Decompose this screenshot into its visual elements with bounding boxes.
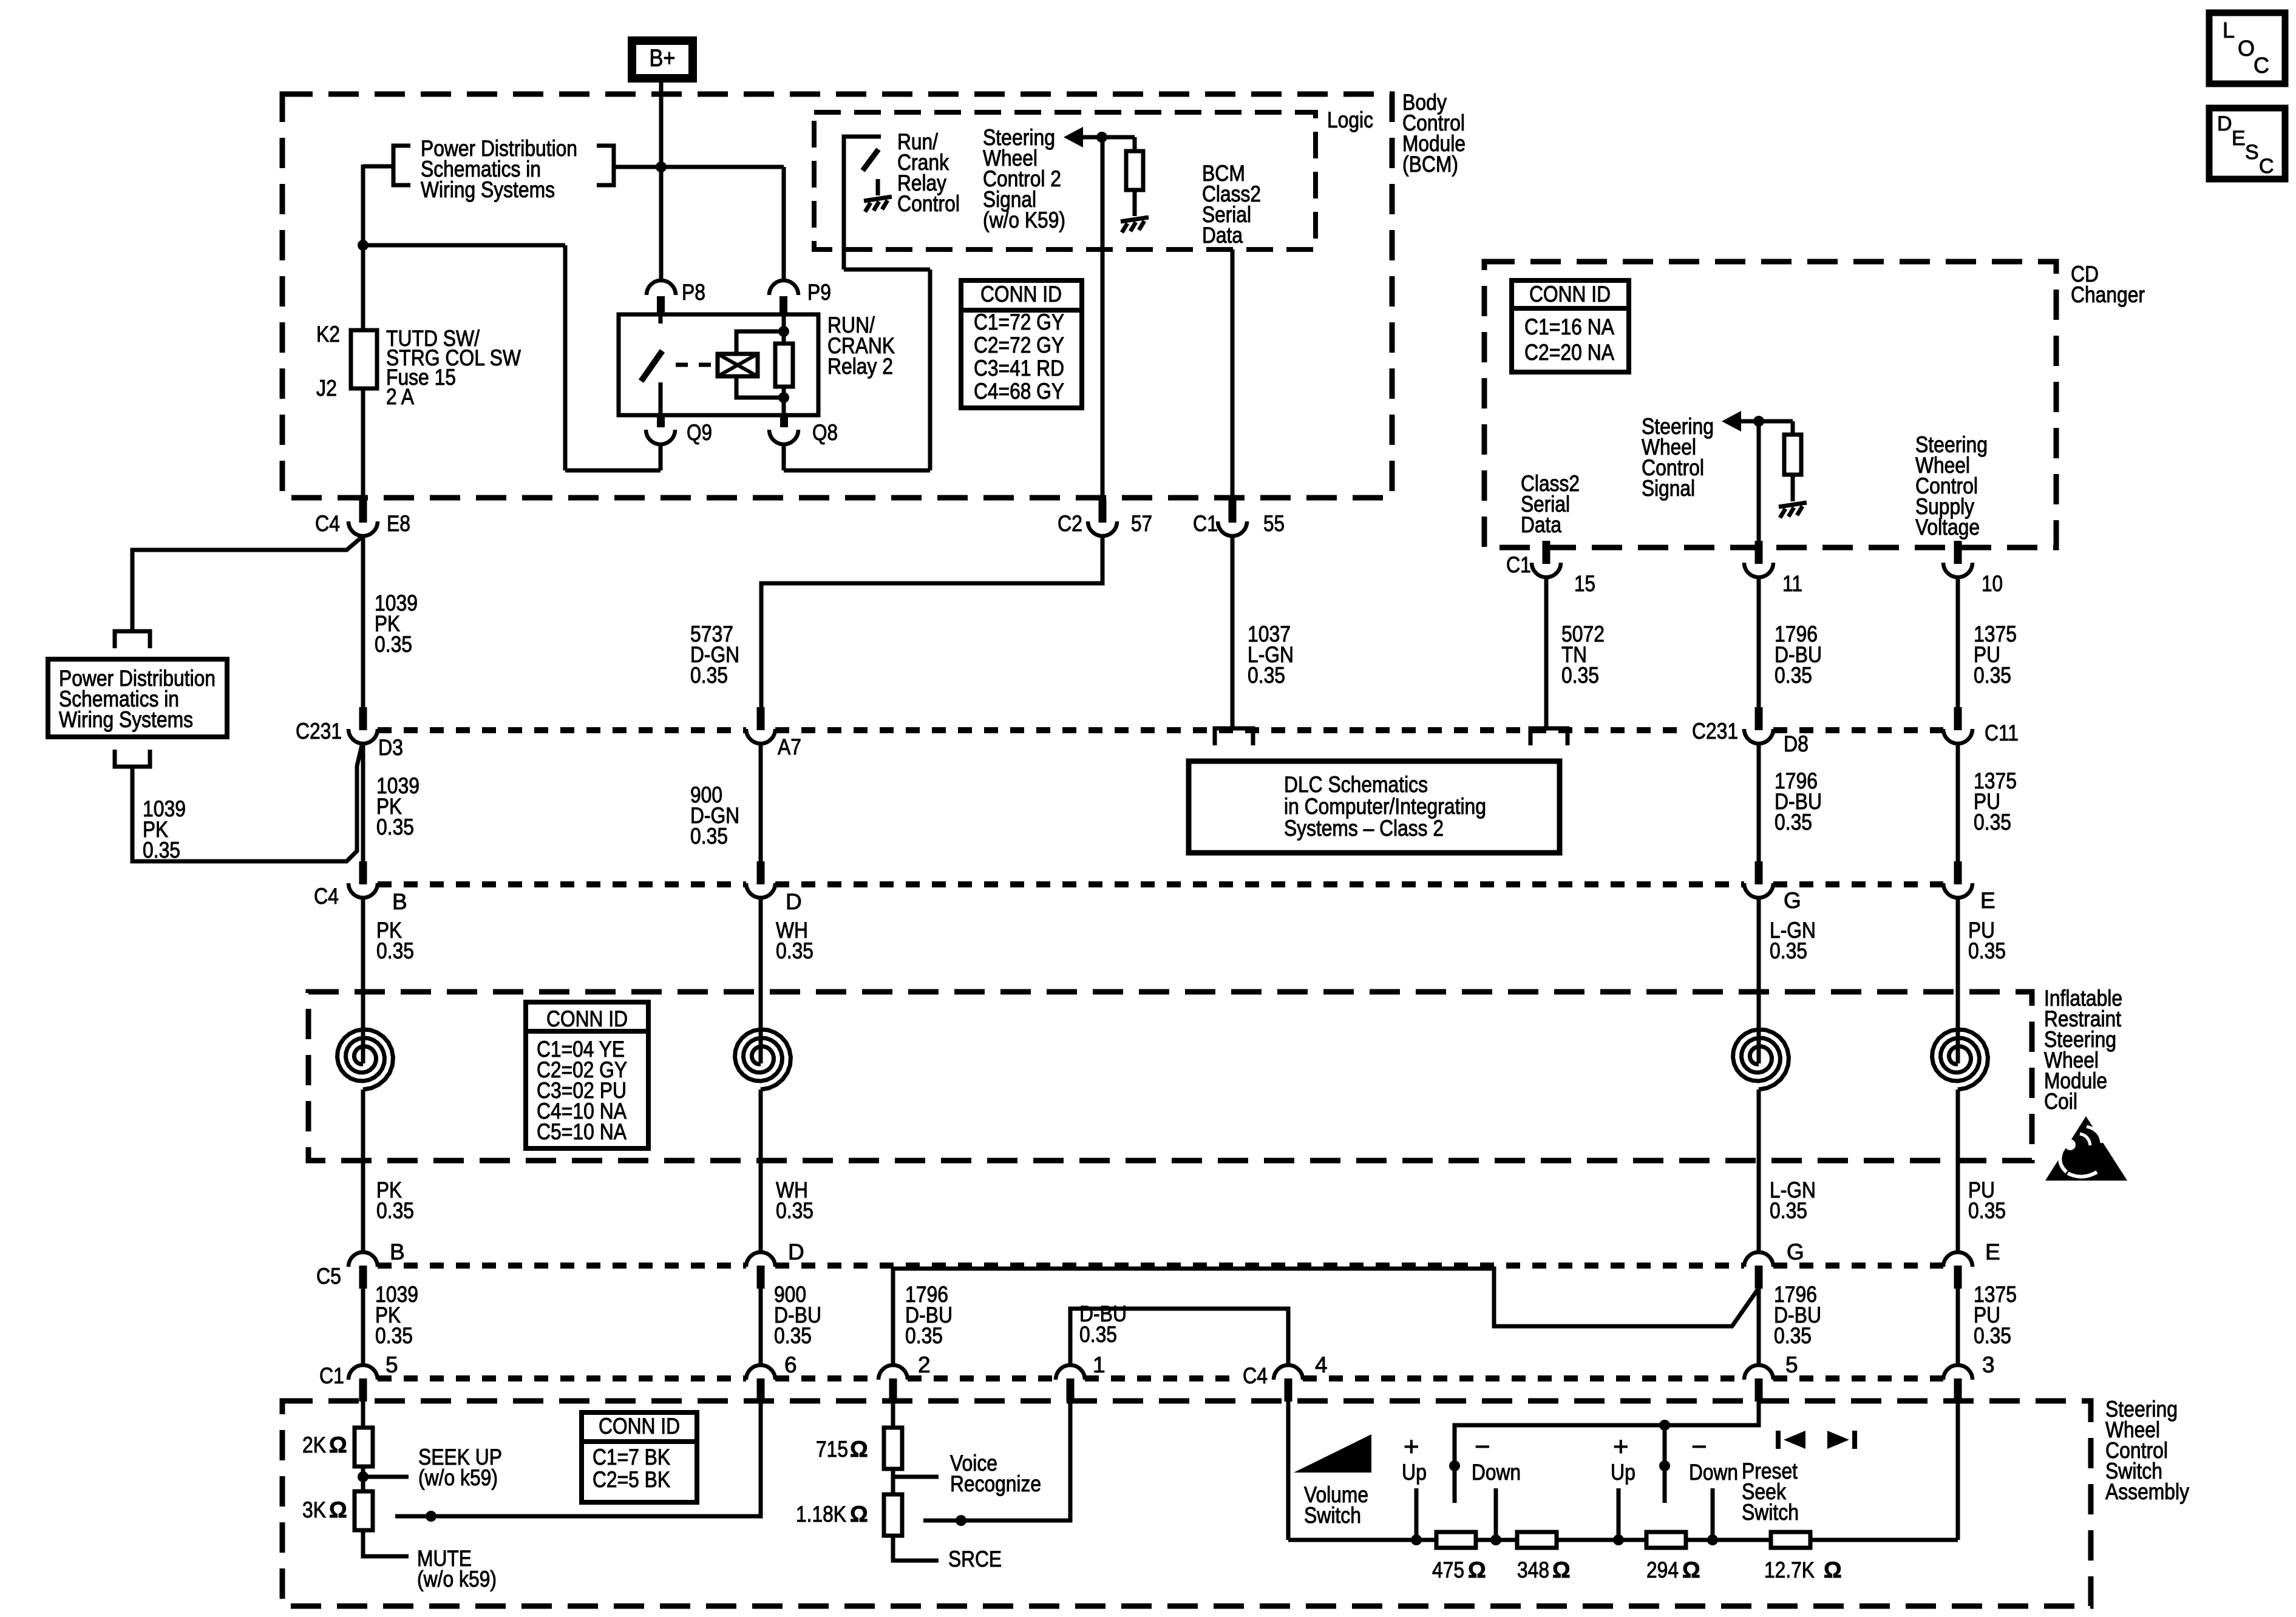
svg-text:Systems – Class 2: Systems – Class 2 (1284, 816, 1444, 841)
svg-text:C1: C1 (1506, 552, 1531, 577)
svg-text:348: 348 (1517, 1558, 1549, 1582)
svg-text:B: B (392, 889, 407, 914)
connector P8 (647, 280, 676, 295)
Power Distribution Schematics box (48, 659, 227, 737)
svg-text:0.35: 0.35 (905, 1323, 943, 1348)
svg-text:Ω: Ω (1824, 1558, 1842, 1582)
svg-text:Signal: Signal (1642, 476, 1695, 501)
svg-text:(w/o k59): (w/o k59) (417, 1567, 497, 1592)
relay actuator dashed link (676, 363, 716, 367)
resistor 12.7K (1771, 1532, 1810, 1548)
bracket DLC left (1215, 728, 1253, 745)
connector C4 E (1954, 861, 1962, 884)
svg-text:Voltage: Voltage (1915, 515, 1980, 540)
connector band C1/C4 bottom row (378, 1375, 746, 1381)
wire left rail top (363, 164, 393, 169)
ground CD signal (1779, 503, 1807, 518)
svg-text:E: E (1980, 888, 1995, 913)
svg-text:C1=72 GY: C1=72 GY (974, 310, 1064, 334)
svg-text:D8: D8 (1784, 731, 1809, 756)
svg-text:CONN ID: CONN ID (599, 1414, 680, 1439)
svg-text:C4: C4 (315, 511, 340, 536)
svg-text:715: 715 (816, 1437, 848, 1462)
svg-text:D3: D3 (378, 735, 403, 760)
svg-text:1: 1 (1093, 1352, 1106, 1377)
svg-text:0.35: 0.35 (1775, 810, 1812, 835)
svg-text:C3=41 RD: C3=41 RD (974, 356, 1064, 381)
junction node B+ feed (656, 161, 667, 172)
wire C5 B to pin 5 (361, 1289, 365, 1364)
svg-text:0.35: 0.35 (690, 824, 728, 849)
svg-text:+: + (1613, 1432, 1629, 1462)
connector Q8 (780, 415, 788, 427)
CONN ID table CD changer (1512, 280, 1629, 372)
svg-text:0.35: 0.35 (376, 1198, 414, 1223)
svg-text:57: 57 (1131, 511, 1152, 536)
connector C4 E8 (359, 500, 367, 523)
wire B+ to P8 (659, 83, 664, 280)
svg-text:0.35: 0.35 (143, 838, 180, 863)
connector C5 B (359, 1266, 367, 1289)
connector C1 pin 5 (359, 1378, 367, 1402)
wire power distribution feed (614, 165, 784, 169)
coil left rail (338, 1029, 393, 1090)
svg-text:Wiring Systems: Wiring Systems (59, 707, 193, 732)
coil second rail (735, 1029, 791, 1090)
wire seek up (363, 1475, 409, 1479)
connector C4 B (359, 861, 367, 884)
svg-text:C1=16 NA: C1=16 NA (1524, 314, 1614, 339)
wire A7 to D (759, 745, 763, 861)
svg-text:Ω: Ω (850, 1502, 868, 1527)
bracket left of power distribution label (393, 146, 410, 185)
svg-text:Q9: Q9 (687, 420, 712, 445)
svg-text:5: 5 (1785, 1352, 1798, 1377)
connector C1 55 (1229, 500, 1237, 523)
relay coil loop wires (736, 331, 784, 354)
svg-text:D: D (786, 889, 802, 914)
connector C5 G (1755, 1266, 1763, 1289)
wire pin 6 lead (395, 1402, 761, 1516)
resistor CD signal pull (1791, 421, 1795, 435)
connector C5 E (1954, 1266, 1962, 1289)
svg-text:K2: K2 (316, 322, 340, 347)
svg-text:E8: E8 (387, 511, 410, 536)
wire pin 5 to switch rail (1455, 1402, 1759, 1503)
svg-text:12.7K: 12.7K (1764, 1558, 1815, 1582)
svg-text:−: − (1475, 1432, 1490, 1462)
svg-text:0.35: 0.35 (1974, 1323, 2011, 1348)
svg-text:E: E (2232, 127, 2246, 150)
svg-text:SRCE: SRCE (948, 1547, 1002, 1571)
svg-text:3K: 3K (302, 1497, 326, 1522)
svg-text:0.35: 0.35 (1775, 663, 1812, 688)
svg-text:C: C (2254, 53, 2269, 78)
wire fuse to connector E8 (361, 388, 365, 498)
svg-text:CONN ID: CONN ID (1529, 282, 1611, 307)
svg-text:C4=68 GY: C4=68 GY (974, 379, 1064, 404)
connector C1 pin 6 (757, 1378, 765, 1402)
svg-text:in Computer/Integrating: in Computer/Integrating (1284, 794, 1486, 819)
connector CD C1 15 (1543, 541, 1550, 564)
DLC Schematics box (1189, 761, 1560, 853)
svg-text:0.35: 0.35 (1079, 1322, 1117, 1347)
wire to P9 (782, 167, 786, 280)
connector band C4 row (378, 881, 746, 887)
wire E8 to off-page bracket (132, 537, 362, 630)
svg-text:C2=20 NA: C2=20 NA (1524, 340, 1614, 365)
svg-text:0.35: 0.35 (1770, 938, 1807, 963)
wire B to coil (361, 899, 365, 1063)
svg-text:2K: 2K (302, 1432, 326, 1457)
preset seek icons (1776, 1431, 1781, 1449)
svg-text:C2: C2 (1058, 511, 1082, 536)
CONN ID table switch assembly (582, 1412, 697, 1502)
connector CD 11 (1755, 541, 1763, 564)
wire left rail to fuse (361, 164, 365, 333)
svg-text:Ω: Ω (1468, 1558, 1486, 1582)
svg-text:Down: Down (1472, 1460, 1521, 1485)
svg-text:2 A: 2 A (386, 384, 414, 409)
connector C2 57 (1099, 500, 1107, 523)
connector C4 G (1755, 861, 1763, 884)
svg-text:10: 10 (1982, 571, 2003, 596)
Steering Wheel Control Switch Assembly dashed box (282, 1401, 2091, 1606)
svg-text:Changer: Changer (2071, 282, 2145, 307)
bracket right of power distribution label (597, 146, 614, 185)
svg-text:B: B (390, 1239, 405, 1264)
connector C4 pin 5 (1755, 1378, 1763, 1402)
svg-text:S: S (2245, 141, 2259, 164)
svg-text:0.35: 0.35 (1968, 938, 2006, 963)
svg-text:Up: Up (1611, 1460, 1635, 1485)
svg-text:C5: C5 (316, 1264, 341, 1289)
coil E rail (1932, 1029, 1988, 1090)
svg-text:G: G (1787, 1239, 1804, 1264)
svg-text:55: 55 (1263, 511, 1285, 536)
wire pin 1 lead (923, 1402, 1070, 1520)
RUN/CRANK Relay 2 box (619, 314, 818, 415)
wire C11 to E (1956, 745, 1960, 861)
svg-text:294: 294 (1646, 1558, 1679, 1582)
svg-text:4: 4 (1315, 1352, 1328, 1377)
svg-text:G: G (1784, 888, 1801, 913)
connector C5 D (757, 1266, 765, 1289)
svg-text:0.35: 0.35 (1974, 810, 2011, 835)
svg-text:C11: C11 (1985, 720, 2019, 745)
connector CD 10 (1954, 541, 1962, 564)
svg-text:D: D (2217, 112, 2232, 135)
Body Control Module (BCM) dashed box (282, 94, 1392, 498)
svg-text:Ω: Ω (1682, 1558, 1700, 1582)
wire D3 to B (361, 745, 365, 861)
svg-text:0.35: 0.35 (776, 1198, 813, 1223)
connector P9 (769, 280, 798, 295)
connector C4 pin 4 (1285, 1378, 1292, 1402)
svg-text:Switch: Switch (1742, 1500, 1799, 1525)
svg-text:(w/o k59): (w/o k59) (418, 1465, 498, 1490)
wire 15 to DLC bracket (1544, 578, 1549, 727)
wire pin 5 to 2K (361, 1402, 365, 1428)
connector C231 D8 (1755, 707, 1763, 730)
svg-text:+: + (1404, 1432, 1419, 1462)
svg-text:Switch: Switch (1304, 1503, 1361, 1528)
resistor 3K (355, 1491, 373, 1530)
svg-text:0.35: 0.35 (375, 632, 412, 657)
connector C231 D3 (359, 707, 367, 730)
relay internal resistor (782, 314, 786, 344)
svg-text:0.35: 0.35 (1248, 663, 1285, 688)
bracket to power distribution box top (115, 631, 150, 648)
Logic dashed box (814, 112, 1316, 249)
wire Q8 to run/crank relay control (784, 469, 930, 473)
svg-text:P8: P8 (682, 280, 705, 305)
resistor 294 (1646, 1532, 1686, 1548)
junction node run/crank feed (358, 240, 369, 251)
svg-text:Up: Up (1402, 1460, 1427, 1485)
svg-text:Ω: Ω (850, 1437, 868, 1462)
wire C1 55 to DLC bracket (1231, 537, 1235, 727)
connector C1 pin 2 (889, 1378, 897, 1402)
svg-text:Q8: Q8 (812, 420, 838, 445)
wire voice recognize (893, 1475, 939, 1479)
svg-text:C231: C231 (296, 719, 342, 744)
DESC reference box (2209, 108, 2285, 179)
svg-text:Wiring Systems: Wiring Systems (421, 177, 555, 202)
resistor BCM signal pull (1133, 137, 1137, 151)
svg-text:Ω: Ω (329, 1432, 347, 1457)
connector band C231 row (378, 727, 746, 733)
svg-text:B+: B+ (650, 45, 676, 72)
wire E to pin 3 (1956, 1289, 1960, 1364)
wire 1796 crossover to pin 2 (893, 1269, 1758, 1364)
svg-text:C5=10 NA: C5=10 NA (537, 1119, 627, 1144)
svg-text:C2=72 GY: C2=72 GY (974, 333, 1064, 358)
wire pin 2 to 715 (891, 1402, 895, 1428)
svg-text:C4: C4 (314, 884, 339, 909)
resistor bus wire (1288, 1538, 1958, 1542)
airbag warning triangle (2045, 1116, 2127, 1181)
wire C2 57 to A7 (761, 537, 1102, 707)
svg-text:475: 475 (1432, 1558, 1464, 1582)
resistor 475 (1436, 1532, 1476, 1548)
svg-text:C231: C231 (1692, 719, 1738, 744)
wire class2 serial data to C1 (1231, 249, 1235, 498)
wire G to pin 5 (1757, 1289, 1761, 1364)
wire E to coil (1956, 899, 1960, 1063)
svg-text:Logic: Logic (1327, 107, 1373, 132)
wire C5 D to pin 6 (759, 1289, 763, 1364)
svg-text:D: D (788, 1239, 804, 1264)
coil G rail (1733, 1029, 1789, 1090)
svg-text:Coil: Coil (2044, 1089, 2077, 1114)
resistor 1.18K (884, 1494, 902, 1536)
svg-text:0.35: 0.35 (1968, 1198, 2006, 1223)
svg-text:1.18K: 1.18K (796, 1502, 846, 1527)
svg-text:C1=7 BK: C1=7 BK (593, 1445, 670, 1470)
CONN ID table BCM (961, 280, 1082, 408)
svg-text:0.35: 0.35 (376, 815, 414, 839)
svg-text:P9: P9 (807, 280, 831, 305)
svg-text:C1: C1 (319, 1363, 344, 1388)
svg-text:3: 3 (1982, 1352, 1995, 1377)
relay switch contact (659, 314, 663, 324)
wire signal to pin 11 (1757, 421, 1761, 547)
CONN ID table coil (526, 1002, 648, 1148)
connector Q9 (657, 415, 665, 427)
connector C1 pin 1 (1067, 1378, 1075, 1402)
CD Changer dashed box (1484, 262, 2056, 547)
connector C231 A7 (757, 707, 765, 730)
svg-text:0.35: 0.35 (375, 1323, 413, 1348)
connector C231 C11 (1954, 707, 1962, 730)
svg-text:0.35: 0.35 (1561, 663, 1599, 688)
svg-text:E: E (1985, 1239, 2000, 1264)
bracket from power distribution box bottom (115, 750, 150, 767)
ground BCM signal (1121, 217, 1149, 232)
wire off-page bracket to C231 (132, 745, 362, 861)
svg-text:O: O (2238, 36, 2255, 61)
svg-text:2: 2 (918, 1352, 931, 1377)
wire E8 to C231 (361, 537, 365, 707)
svg-text:Data: Data (1202, 223, 1243, 248)
svg-text:Data: Data (1521, 512, 1561, 537)
wire G to coil (1757, 899, 1761, 1063)
connector C4 D (757, 861, 765, 884)
svg-text:−: − (1691, 1432, 1707, 1462)
svg-text:J2: J2 (316, 376, 337, 401)
wire D to coil (759, 899, 763, 1063)
svg-text:L: L (2223, 18, 2235, 42)
svg-text:C1: C1 (1193, 511, 1218, 536)
ground run/crank relay control (876, 179, 880, 195)
svg-text:0.35: 0.35 (376, 938, 414, 963)
LOC reference box (2209, 13, 2285, 84)
wire D8 to G (1757, 745, 1761, 861)
svg-text:Assembly: Assembly (2105, 1479, 2189, 1504)
svg-text:0.35: 0.35 (774, 1323, 812, 1348)
svg-text:C: C (2259, 155, 2274, 178)
svg-text:DLC Schematics: DLC Schematics (1284, 772, 1428, 797)
wire control 2 signal to C2 (1101, 137, 1105, 498)
Inflatable Restraint Steering Wheel Module Coil dashed box (308, 992, 2032, 1161)
svg-text:C4: C4 (1243, 1363, 1268, 1388)
arrow steering wheel control 2 signal (1064, 127, 1083, 147)
arrow steering wheel control signal (1722, 411, 1741, 432)
wire mute (363, 1530, 409, 1556)
svg-text:Control: Control (897, 191, 960, 216)
connector C4 pin 3 (1954, 1378, 1962, 1402)
run/crank relay control switch (842, 135, 881, 139)
wire 11 to D8 (1757, 578, 1761, 707)
svg-text:(BCM): (BCM) (1402, 152, 1458, 177)
svg-text:0.35: 0.35 (1774, 1323, 1812, 1348)
B+ power symbol (628, 36, 697, 83)
svg-text:C2=5 BK: C2=5 BK (593, 1467, 670, 1492)
svg-text:15: 15 (1574, 571, 1595, 596)
svg-text:0.35: 0.35 (690, 663, 728, 688)
wire pin 4 to volume switch (1286, 1402, 1291, 1540)
svg-text:0.35: 0.35 (1974, 663, 2011, 688)
svg-text:Recognize: Recognize (950, 1471, 1041, 1496)
wire run/crank relay feed loop (363, 243, 565, 248)
fuse K2/J2 TUTD SW (351, 330, 377, 388)
svg-text:CONN ID: CONN ID (546, 1006, 628, 1031)
connector band C5 row (378, 1263, 746, 1269)
relay coil (box with X) (718, 354, 758, 376)
resistor 348 (1517, 1532, 1557, 1548)
svg-text:11: 11 (1782, 571, 1802, 596)
svg-text:(w/o K59): (w/o K59) (983, 208, 1065, 232)
svg-text:0.35: 0.35 (776, 938, 813, 963)
resistor 715 (884, 1428, 902, 1469)
wire pin 3 to bus (1956, 1402, 1960, 1540)
bracket DLC right (1530, 728, 1567, 745)
svg-text:CONN ID: CONN ID (980, 282, 1062, 307)
wire 10 to C11 (1956, 578, 1960, 707)
svg-text:Ω: Ω (329, 1497, 347, 1522)
svg-text:6: 6 (784, 1352, 797, 1377)
svg-text:0.35: 0.35 (1770, 1198, 1807, 1223)
svg-text:A7: A7 (778, 734, 801, 759)
svg-text:Ω: Ω (1552, 1558, 1571, 1582)
svg-text:Relay 2: Relay 2 (827, 354, 893, 379)
resistor 2K (355, 1428, 373, 1466)
svg-text:5: 5 (385, 1352, 398, 1377)
svg-text:Down: Down (1689, 1460, 1738, 1485)
volume switch triangle (1294, 1434, 1371, 1473)
wire D-BU pin 1 to pin 4 (1070, 1309, 1288, 1364)
wire SRCE (893, 1536, 939, 1561)
